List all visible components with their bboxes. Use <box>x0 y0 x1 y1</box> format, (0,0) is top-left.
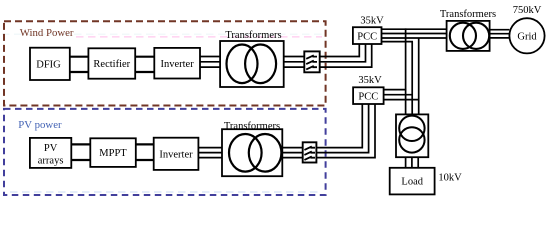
enclosure Wind Power dashed box <box>4 21 326 105</box>
wire Inverter to PV Transformers (3-phase) <box>198 148 222 158</box>
generator DFIG <box>30 48 70 80</box>
rectifier block <box>88 48 135 78</box>
PCC box (upper) <box>353 27 382 44</box>
svg-text:PCC: PCC <box>357 32 377 43</box>
svg-text:Transformers: Transformers <box>440 9 496 20</box>
transformer T4 (load step-down) <box>396 114 428 157</box>
svg-text:Transformers: Transformers <box>224 121 280 132</box>
wire transformer T4 to Load (3-phase) <box>406 157 419 168</box>
wire breaker to PCC1 staircase (3-phase) <box>320 44 372 67</box>
svg-text:Wind Power: Wind Power <box>20 27 74 39</box>
svg-text:PV power: PV power <box>18 119 62 131</box>
wire PV Transformers to breaker (3-phase) <box>282 148 302 158</box>
grid node <box>509 18 544 53</box>
wire PCC2 to bus B1 <box>384 89 407 91</box>
svg-text:Inverter: Inverter <box>159 149 193 160</box>
breaker/cable box (PV) <box>303 142 317 162</box>
inverter block (wind) <box>154 48 200 79</box>
PV array block <box>30 138 71 168</box>
svg-text:Inverter: Inverter <box>160 59 194 70</box>
wire transformer to Grid (3-phase) <box>490 30 510 38</box>
svg-text:750kV: 750kV <box>513 5 542 16</box>
bus vertical V2 <box>411 42 413 115</box>
svg-text:DFIG: DFIG <box>36 59 61 70</box>
svg-text:PCC: PCC <box>358 92 378 103</box>
svg-text:Transformers: Transformers <box>225 30 281 41</box>
svg-text:35kV: 35kV <box>358 75 382 86</box>
svg-text:10kV: 10kV <box>438 172 462 183</box>
wire MPPT to Inverter (double line) <box>136 144 154 160</box>
transformer T1 (wind) <box>220 30 284 87</box>
wire PCC1 to grid transformer L2 <box>382 33 447 35</box>
wire PCC1 to grid transformer L1 <box>382 28 447 30</box>
wire Rectifier to Inverter (double line) <box>135 57 154 72</box>
wire bus tap L3 <box>382 37 447 39</box>
transformer T2 (PV) <box>222 121 282 176</box>
transformer T3 (grid step-up) <box>440 9 496 51</box>
bus vertical V1 <box>405 28 407 114</box>
bus vertical V3 <box>418 38 420 114</box>
wire breaker to PCC2 staircase (3-phase) <box>316 104 375 158</box>
breaker/cable box (wind) <box>304 51 319 72</box>
svg-text:35kV: 35kV <box>360 16 384 27</box>
svg-text:Load: Load <box>401 177 423 188</box>
wire PCC2 to bus B2 <box>384 94 413 96</box>
wire DFIG to Rectifier (double line) <box>70 57 89 72</box>
wire PV arrays to MPPT (double line) <box>71 144 90 160</box>
MPPT block <box>90 138 136 167</box>
svg-text:PV: PV <box>44 143 58 154</box>
inverter block (PV) <box>154 138 199 170</box>
enclosure PV power dashed box <box>4 109 326 195</box>
svg-text:Rectifier: Rectifier <box>93 59 130 70</box>
wire wind Transformers to breaker (3-phase) <box>284 57 305 68</box>
svg-text:Grid: Grid <box>517 32 537 43</box>
svg-text:MPPT: MPPT <box>99 148 127 159</box>
ghost artifacts (unlabeled, before first element) <box>2 34 322 192</box>
wire PCC1 stub L4 <box>382 41 414 43</box>
PCC box (lower) <box>353 87 384 104</box>
wire PCC2 to bus B3 <box>384 99 420 101</box>
wire Inverter to wind Transformers (3-phase) <box>200 57 220 68</box>
load block <box>390 168 435 195</box>
svg-text:arrays: arrays <box>38 155 64 166</box>
